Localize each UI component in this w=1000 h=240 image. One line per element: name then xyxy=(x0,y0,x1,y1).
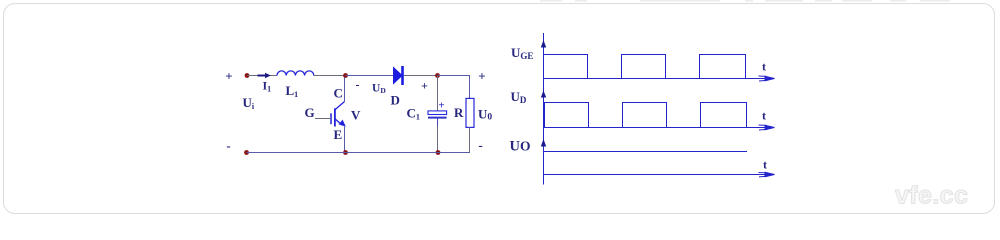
svg-text:+: + xyxy=(225,69,232,84)
emitter arrowhead xyxy=(339,120,346,127)
UGE waveform pulses xyxy=(544,55,746,79)
svg-text:D: D xyxy=(391,93,400,108)
svg-text:R: R xyxy=(454,105,464,120)
body bar xyxy=(334,108,336,126)
axis arrowhead UGE xyxy=(541,40,546,48)
svg-text:UD: UD xyxy=(372,82,386,95)
UD time axis xyxy=(544,127,773,129)
bottom rail wire xyxy=(247,152,470,154)
wire input+ to inductor xyxy=(247,75,277,77)
svg-text:C: C xyxy=(334,86,343,101)
emitter diagonal xyxy=(335,119,342,125)
node input- (red dot) xyxy=(244,150,249,155)
wire inductor to collector node xyxy=(314,75,346,77)
resistor R xyxy=(466,98,474,127)
UO flat level line xyxy=(544,151,748,153)
collector wire xyxy=(344,77,346,102)
axis arrowhead UO xyxy=(541,139,546,147)
wire output node to R branch corner xyxy=(438,76,470,99)
wire R bottom to bottom rail xyxy=(469,127,471,153)
transistor V (IGBT) xyxy=(315,77,345,153)
svg-text:V: V xyxy=(351,108,361,123)
svg-text:UO: UO xyxy=(510,139,531,155)
svg-text:+: + xyxy=(438,100,444,112)
UO axis arrow xyxy=(759,172,775,177)
axis arrowhead UD xyxy=(541,91,546,98)
wire junction to diode anode xyxy=(346,75,394,77)
node emitter-bottom junction (red dot) xyxy=(343,150,348,155)
faint cropped text remnants at top edge xyxy=(540,0,950,2)
svg-text:t: t xyxy=(762,109,766,123)
node C1-bottom junction (red dot) xyxy=(436,150,441,155)
svg-text:C1: C1 xyxy=(407,106,420,122)
diode D xyxy=(394,66,403,85)
shared vertical axis xyxy=(543,33,545,185)
svg-text:Ui: Ui xyxy=(243,95,255,111)
C1 top plate xyxy=(428,111,447,115)
svg-text:-: - xyxy=(478,138,482,153)
svg-text:vfe.cc: vfe.cc xyxy=(895,182,968,210)
node input+ (red dot) xyxy=(245,73,250,78)
UO time axis xyxy=(544,174,773,176)
svg-text:UD: UD xyxy=(511,89,527,105)
svg-text:-: - xyxy=(356,78,360,92)
gate bar xyxy=(330,113,332,124)
wire node to C1 top plate xyxy=(437,76,439,111)
svg-text:E: E xyxy=(334,127,343,142)
svg-text:+: + xyxy=(421,79,428,93)
gate lead xyxy=(315,118,331,120)
svg-text:L1: L1 xyxy=(286,83,299,99)
svg-text:U0: U0 xyxy=(478,107,492,123)
node diode-output junction (red dot) xyxy=(435,73,440,78)
C1 bottom plate xyxy=(428,117,447,119)
svg-text:G: G xyxy=(305,105,315,120)
svg-text:UGE: UGE xyxy=(511,45,533,61)
svg-text:-: - xyxy=(226,138,230,153)
UD waveform pulses xyxy=(545,103,747,128)
emitter wire xyxy=(344,127,346,153)
svg-text:I1: I1 xyxy=(263,79,272,94)
svg-text:t: t xyxy=(762,60,766,74)
node collector-top junction (red dot) xyxy=(343,73,348,78)
svg-text:+: + xyxy=(478,69,485,84)
UD axis arrow xyxy=(759,125,775,130)
wire diode cathode to output node xyxy=(404,75,438,77)
UGE axis arrow xyxy=(759,76,775,81)
UGE time axis xyxy=(544,78,773,80)
inductor L1 xyxy=(277,71,314,76)
svg-text:t: t xyxy=(763,158,767,172)
wire C1 bottom plate to bottom rail xyxy=(437,119,439,127)
current arrow I1 xyxy=(258,73,271,79)
